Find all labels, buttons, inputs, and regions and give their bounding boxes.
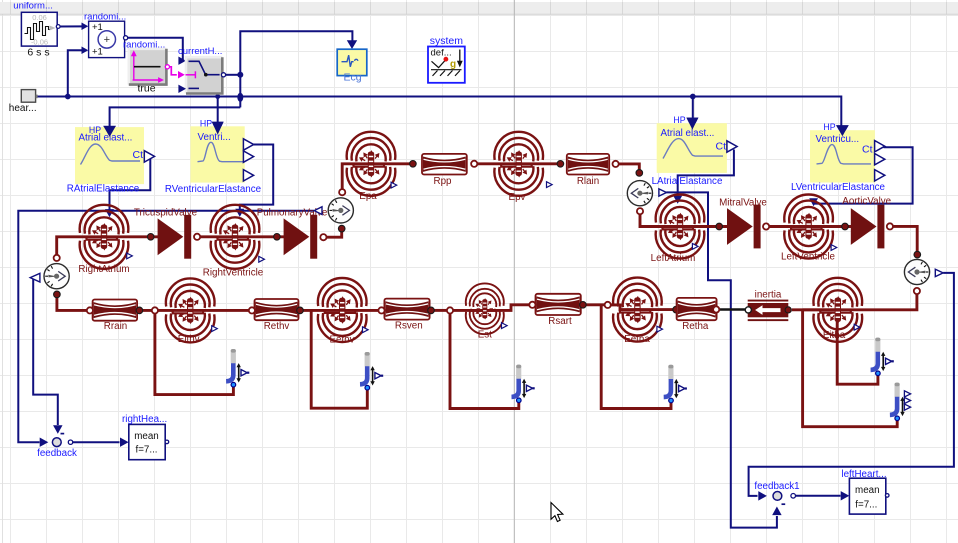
sensor J2 volume meter <box>365 352 370 368</box>
LAtrialElastance curve <box>663 139 723 159</box>
gauge P4 top port <box>914 251 921 258</box>
wire Eetha to Retha <box>637 308 673 311</box>
sensor J3 volume meter <box>516 365 521 381</box>
svg-text:HP: HP <box>673 115 685 125</box>
svg-text:Atrial elast...: Atrial elast... <box>661 128 715 139</box>
wire J3 junction to Est <box>453 309 485 312</box>
svg-text:MitralValve: MitralValve <box>719 197 767 208</box>
svg-text:Epa: Epa <box>359 191 377 202</box>
wire Eitha to inertia <box>792 308 837 311</box>
gauge P3 bottom port <box>637 208 643 214</box>
TricuspidValve inflow port <box>147 234 154 241</box>
wire branch to RAtrialElastance HP <box>110 107 241 127</box>
svg-text:feedback: feedback <box>37 448 77 459</box>
block heartRate output connector <box>21 90 35 103</box>
wire J3 drop <box>450 314 519 409</box>
block RVentricularElastance <box>190 126 244 182</box>
wire J2 drop <box>311 310 367 408</box>
arrowhead HP into LAtrialElastance (over block) <box>686 118 698 130</box>
RightVentricle pressure port <box>259 256 265 262</box>
Eithv pressure port <box>212 326 218 332</box>
wire Eethv to Rsven <box>342 309 378 312</box>
node junction LAtrial HP <box>690 94 696 100</box>
Retha right port <box>713 306 719 312</box>
component inertia (hydraulic inertance) <box>748 300 789 302</box>
arrowhead HP into LAtrialElastance <box>686 118 698 130</box>
AorticValve outflow port <box>887 223 893 229</box>
arrowhead into Ecg <box>347 40 357 49</box>
svg-text:Ventri...: Ventri... <box>198 132 231 143</box>
wire RightVentricle to PulmonaryValve <box>235 235 285 238</box>
LAtrialElastance Ct output <box>727 141 737 152</box>
wire gauge P2 top to Epa <box>342 164 371 189</box>
wire EpaPressure to feedback (long left line) <box>18 211 314 442</box>
uniformNoise waveform <box>25 22 51 40</box>
wire feedback1 to leftHeart mean <box>796 495 841 497</box>
wire Eitha drop to J5 <box>837 310 878 384</box>
valve AorticValve <box>851 208 877 245</box>
block randomizedHR add (sum) <box>89 21 125 57</box>
Epa pressure port <box>391 182 397 188</box>
node junction currentH out <box>237 72 243 78</box>
block system (settings) <box>428 47 465 83</box>
system gravity arrow <box>459 50 461 62</box>
svg-text:def...: def... <box>431 48 452 59</box>
svg-text:randomi...: randomi... <box>123 39 165 50</box>
svg-text:Rsart: Rsart <box>548 316 572 327</box>
node J1 junction circle <box>152 307 158 313</box>
component LeftVentricle elastic vessel <box>784 194 833 258</box>
svg-text:Ct: Ct <box>716 141 727 153</box>
feedback1 minus sign <box>782 503 786 505</box>
node junction HP bus <box>237 93 243 102</box>
Eetha pressure port <box>657 326 663 332</box>
node junction heartRate/add <box>65 94 71 100</box>
sensor gauge P4 (aortic pressure) <box>904 259 929 284</box>
booleanConstant true level line <box>134 66 161 68</box>
gauge P1 bottom port <box>54 291 61 298</box>
Rsart left port <box>529 302 535 308</box>
switch output port <box>221 73 225 77</box>
wire Epa to Rpp <box>371 162 416 165</box>
block RAtrialElastance <box>75 127 144 184</box>
Eitha pressure port <box>854 324 860 330</box>
arrowhead into feedback top <box>53 425 62 434</box>
svg-text:Retha: Retha <box>682 321 709 332</box>
Rrain right port <box>136 307 143 314</box>
Rpp left port <box>410 161 417 168</box>
svg-text:LVentricularElastance: LVentricularElastance <box>791 182 886 193</box>
sensor J4 volume meter <box>668 365 673 381</box>
arrowhead into switch u1 <box>178 57 186 65</box>
svg-text:mean: mean <box>855 485 880 496</box>
gauge P2 bottom port <box>338 225 345 232</box>
RVentricularElastance Ct output 2 <box>243 151 253 162</box>
svg-text:HP: HP <box>200 118 212 128</box>
svg-text:Est: Est <box>478 329 492 340</box>
gauge P2 output triangle <box>314 207 322 215</box>
component Eetha elastic vessel <box>613 278 662 342</box>
svg-text:+1: +1 <box>92 22 103 33</box>
AorticValve inflow port <box>842 223 849 230</box>
wire Rsven to J3 <box>431 309 447 312</box>
arrowhead into feedback1 bottom <box>772 507 781 516</box>
RVentricularElastance Ct output 1 <box>243 139 253 150</box>
LeftVentricle pressure port <box>831 245 837 251</box>
svg-text:Atrial elast...: Atrial elast... <box>79 132 133 143</box>
wire Est to Rsart (jog up) <box>485 305 530 311</box>
Eetha right port <box>673 306 680 313</box>
inertia left port <box>745 307 751 313</box>
block Ecg <box>337 49 367 75</box>
gauge P1 top port <box>54 255 60 261</box>
LVentricularElastance curve <box>817 145 872 164</box>
Rlain right port <box>613 161 619 167</box>
wire boolean constant to switch u2 (magenta) <box>170 67 177 75</box>
svg-text:Eithv: Eithv <box>178 334 200 345</box>
wire Rlain to gauge P3 top <box>619 164 640 170</box>
wire LeftVentricle to AorticValve <box>809 225 852 228</box>
svg-text:LeftVentricle: LeftVentricle <box>781 251 835 262</box>
wire AorticValve to gauge P4 top <box>893 226 917 251</box>
node J3 junction circle <box>447 307 453 313</box>
wire RightAtrium to TricuspidValve <box>104 235 159 238</box>
RightAtrium pressure port <box>127 253 133 259</box>
Rsart right port <box>580 302 587 309</box>
svg-text:Ct: Ct <box>862 143 873 155</box>
block feedback1 <box>773 492 782 501</box>
arrowhead into LeftAtrium top <box>673 196 682 204</box>
resistor Rsart <box>536 294 581 315</box>
gauge P2 top port <box>339 189 345 195</box>
wire gauge P4 bottom to arteries <box>803 294 917 310</box>
MitralValve outflow port <box>763 223 769 229</box>
wire MitralValve to LeftVentricle <box>769 225 808 228</box>
svg-text:Ct: Ct <box>133 149 144 161</box>
svg-text:TricuspidValve: TricuspidValve <box>134 207 198 218</box>
resistor Rlain <box>567 154 609 175</box>
sensor gauge P2 (pulmonary artery pressure) <box>328 198 353 223</box>
arrowhead HP into RAtrialElastance (over block) <box>103 126 116 137</box>
wire RVentricularElastance Ct to RightVentricle <box>240 145 273 210</box>
rightHeart output port <box>165 440 169 444</box>
svg-text:HP: HP <box>823 122 835 132</box>
arrowhead into RightAtrium top <box>105 209 114 217</box>
wire Rpp to Epv <box>477 162 518 165</box>
LVentricularElastance Ct output 2 <box>875 154 885 165</box>
wire Rrain to J1 to Eithv <box>139 309 190 312</box>
svg-text:f=7...: f=7... <box>135 445 157 456</box>
arrowhead HP into LVentricularElastance <box>836 125 849 136</box>
arrowhead into LeftVentricle top <box>809 198 818 206</box>
svg-text:Rsven: Rsven <box>395 320 423 331</box>
svg-text:hear...: hear... <box>9 103 37 114</box>
svg-text:Rlain: Rlain <box>577 176 599 187</box>
svg-text:inertia: inertia <box>755 290 782 301</box>
wire TricuspidValve to RightVentricle <box>200 235 235 238</box>
wire LeftAtrium to MitralValve <box>680 225 728 228</box>
svg-text:RVentricularElastance: RVentricularElastance <box>165 184 262 195</box>
node junction circle after Rsart <box>605 302 611 308</box>
component LeftAtrium elastic vessel <box>656 194 705 258</box>
wire gauge P3 bottom to LeftAtrium <box>640 214 680 226</box>
feedback minus sign <box>61 433 65 435</box>
component RightVentricle elastic vessel <box>211 205 260 269</box>
svg-text:+1: +1 <box>92 47 103 58</box>
node junction RVent HP <box>215 94 220 99</box>
block LAtrialElastance <box>657 123 727 173</box>
svg-text:true: true <box>137 82 155 94</box>
wire J4 drop <box>601 305 671 409</box>
block uniformNoise (band-limited noise source) <box>21 12 57 46</box>
wire branch down to RVentricularElastance HP <box>217 97 219 124</box>
svg-text:Rrain: Rrain <box>104 321 127 332</box>
RAtrialElastance curve <box>81 144 141 165</box>
wire junction to Eetha <box>611 305 638 310</box>
switch pivot dot <box>204 73 208 77</box>
wire heart-rate bus from heartRate output to elastance HP inputs <box>37 97 841 127</box>
svg-text:AorticValve: AorticValve <box>842 196 891 207</box>
component Est elastic vessel <box>466 283 504 334</box>
Rsven right port <box>428 307 435 314</box>
svg-text:6 s s: 6 s s <box>27 46 49 58</box>
svg-text:RightAtrium: RightAtrium <box>78 264 129 275</box>
svg-text:Rpp: Rpp <box>434 176 453 187</box>
arrowhead HP into RVentricularElastance <box>212 122 224 135</box>
component Epa elastic vessel <box>347 132 396 196</box>
sensor gauge P1 (right atrium pressure) <box>44 264 69 289</box>
component RightAtrium elastic vessel <box>80 205 129 269</box>
Rsven left port <box>378 307 384 313</box>
wire LAtrialElastance Ct to LeftAtrium <box>678 150 734 197</box>
block LVentricularElastance <box>810 130 875 182</box>
svg-text:0.06: 0.06 <box>32 13 47 22</box>
valve MitralValve <box>727 208 753 245</box>
resistor Retha <box>677 298 717 320</box>
arrowhead into switch u2 <box>178 71 185 78</box>
svg-text:leftHeart...: leftHeart... <box>841 469 886 480</box>
arrowhead HP into RVentricularElastance (over block) <box>212 122 224 135</box>
svg-text:+: + <box>104 34 110 46</box>
block currentHeartRate switch <box>186 57 222 93</box>
wire LApressure to feedback1 bottom <box>666 192 777 527</box>
RVentricularElastance curve <box>198 142 244 161</box>
Rpp right port <box>471 161 477 167</box>
component Eethv elastic vessel <box>318 278 367 342</box>
wire LVentricularElastance Ct to LeftVentricle <box>814 147 913 203</box>
resistor Rrain <box>93 300 138 321</box>
block feedback <box>52 438 61 447</box>
svg-text:mean: mean <box>134 431 159 442</box>
wire AortaPressure to feedback1 left <box>749 273 954 496</box>
svg-text:HP: HP <box>89 125 101 135</box>
wire gauge P1 bottom to Rrain <box>57 294 87 310</box>
Ecg waveform icon <box>342 55 354 67</box>
LeftAtrium pressure port <box>692 244 698 250</box>
svg-text:RAtrialElastance: RAtrialElastance <box>67 184 140 195</box>
gauge P4 bottom port <box>914 288 920 294</box>
component Eithv elastic vessel <box>166 278 215 342</box>
Rethv right port <box>297 307 304 314</box>
svg-text:feedback1: feedback1 <box>754 481 799 492</box>
svg-text:f=7...: f=7... <box>855 499 877 510</box>
gauge P3 output triangle <box>659 189 667 196</box>
TricuspidValve outflow port <box>194 234 200 240</box>
wire RAtrialElastance Ct to RightAtrium <box>110 157 151 210</box>
uniformNoise arrow tail <box>50 26 56 31</box>
wire J1 drop <box>155 314 234 395</box>
wire add output to switch u1 <box>127 38 183 61</box>
svg-text:Rethv: Rethv <box>264 321 290 332</box>
wire branch up to add block input u2 <box>68 50 82 96</box>
sensor J6 volume meter (vector output) <box>895 383 900 399</box>
svg-text:Eethv: Eethv <box>329 335 354 346</box>
add block circle <box>98 31 115 48</box>
wire Epv to Rlain <box>519 162 561 165</box>
resistor Rsven <box>384 299 429 320</box>
system red mass dot <box>444 57 449 62</box>
RVentricularElastance Ct output 3 <box>243 170 253 181</box>
Rlain left port <box>557 161 564 168</box>
block rightHeart mean <box>129 424 165 459</box>
svg-text:Epv: Epv <box>509 192 526 203</box>
svg-text:LeftAtrium: LeftAtrium <box>651 253 696 264</box>
arrowhead into leftHeart <box>841 491 850 500</box>
uniformNoise output port <box>56 25 60 29</box>
switch icon wiring <box>189 61 220 88</box>
wire Retha to inertia (black segment) <box>719 308 746 311</box>
arrowhead into feedback1 left <box>758 491 767 500</box>
svg-text:g: g <box>450 59 456 70</box>
component Eitha elastic vessel <box>814 278 863 342</box>
wire currentHeartRate output vertical / Ecg feed <box>240 31 352 107</box>
wire feedback to rightHeart mean <box>73 441 120 443</box>
leftHeart output port <box>885 494 889 498</box>
svg-text:Ecg: Ecg <box>344 72 362 84</box>
block randomizeHR booleanConstant <box>129 49 167 85</box>
valve TricuspidValve <box>158 218 184 255</box>
Rrain left port <box>87 307 93 313</box>
system pendulum <box>431 59 462 76</box>
block leftHeart mean <box>849 478 885 514</box>
PulmonaryValve inflow port <box>274 234 281 241</box>
arrowhead HP into RAtrialElastance <box>103 126 116 137</box>
inertia right port <box>785 307 791 313</box>
arrowhead into RightVentricle top <box>235 209 244 217</box>
resistor Rpp <box>422 154 467 175</box>
mouse cursor <box>551 503 563 522</box>
sensor J5 volume meter <box>875 338 880 354</box>
svg-text:Eitha: Eitha <box>823 330 846 341</box>
wire Rethv to Eethv <box>300 309 342 312</box>
booleanConstant y-axis <box>132 52 162 82</box>
arrowhead into add u1 <box>82 23 89 30</box>
arrowhead HP into LVentricularElastance (over block) <box>836 125 849 136</box>
wire RightAtrium to gauge P1 top <box>57 237 104 255</box>
component Epv elastic vessel <box>494 132 543 196</box>
wire branch down to LAtrialElastance HP <box>692 97 694 119</box>
switch inner boolean stub <box>186 71 196 78</box>
Epv pressure port <box>547 182 553 188</box>
gauge P1 output triangle <box>30 273 40 282</box>
resistor Rethv <box>255 299 299 320</box>
wire switch output to junction <box>225 74 240 76</box>
sensor gauge P3 (left atrium pressure) <box>627 181 652 206</box>
Est pressure port <box>502 323 508 329</box>
wire RightAtriumPressure to feedback top <box>33 278 58 425</box>
svg-text:LAtrialElastance: LAtrialElastance <box>652 176 723 187</box>
wire uniformNoise to add block <box>59 25 83 27</box>
add output port <box>124 36 128 40</box>
LVentricularElastance Ct output 3 <box>875 170 885 181</box>
gauge P4 output triangle <box>935 269 943 276</box>
svg-text:Ventricu...: Ventricu... <box>816 134 860 145</box>
gauge P3 top port <box>636 170 643 177</box>
RAtrialElastance Ct output <box>144 151 154 162</box>
arrowhead into feedback left <box>40 437 49 446</box>
wire PulmonaryValve to gauge P2 <box>327 229 342 238</box>
arrowhead into add u2 <box>82 47 89 54</box>
svg-text:rightHea...: rightHea... <box>122 414 167 425</box>
svg-text:Eetha: Eetha <box>624 334 650 345</box>
svg-text:uniform...: uniform... <box>13 1 53 12</box>
PulmonaryValve outflow port <box>320 234 326 240</box>
switch input u3 arrowhead <box>178 85 186 93</box>
MitralValve inflow port <box>716 223 723 230</box>
valve PulmonaryValve <box>284 218 310 255</box>
Eethv pressure port <box>363 327 369 333</box>
wire Eithv to Rethv <box>190 309 249 312</box>
feedback output port <box>68 440 72 444</box>
arrowhead into rightHeart <box>120 437 129 446</box>
LVentricularElastance Ct output 1 <box>875 141 885 152</box>
svg-text:randomi...: randomi... <box>84 12 126 23</box>
wire inertia junction drop to J6 <box>803 310 898 427</box>
svg-text:RightVentricle: RightVentricle <box>203 268 264 279</box>
wire Rsart to junction J4 <box>583 303 605 306</box>
sensor J1 volume meter <box>231 349 236 365</box>
Rethv left port <box>249 307 255 313</box>
svg-text:system: system <box>430 35 464 47</box>
feedback1 output port <box>791 494 796 499</box>
svg-text:currentH...: currentH... <box>178 46 222 57</box>
booleanConstant output port <box>165 65 169 69</box>
